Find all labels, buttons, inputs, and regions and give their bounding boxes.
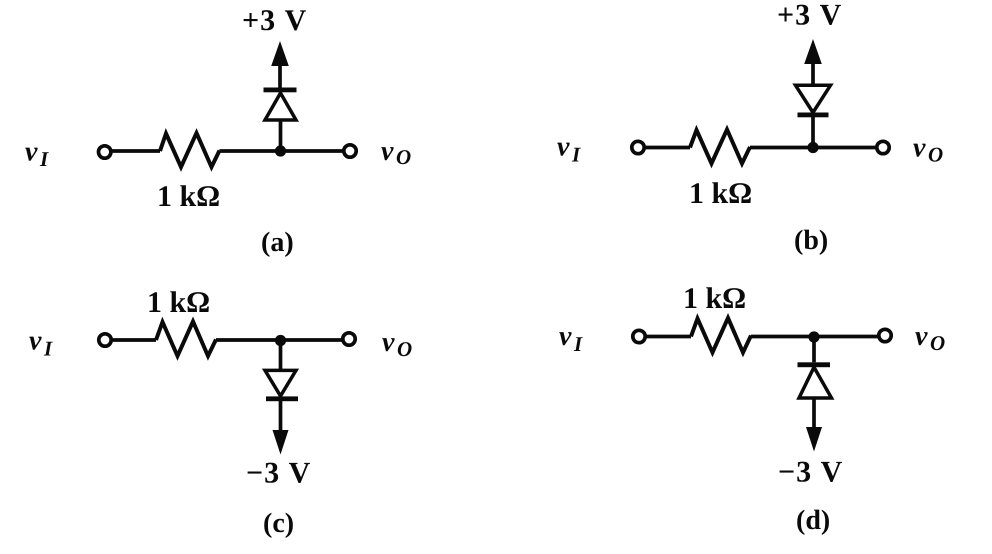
svg-text:O: O [930,331,945,355]
svg-text:O: O [397,337,412,361]
svg-text:+3 V: +3 V [242,4,307,37]
svg-text:v: v [557,132,570,163]
svg-text:−3 V: −3 V [246,457,311,490]
svg-text:v: v [29,326,42,357]
svg-text:−3 V: −3 V [778,456,843,489]
svg-text:v: v [913,133,926,164]
svg-text:1 kΩ: 1 kΩ [689,177,752,210]
svg-text:v: v [915,321,928,352]
svg-text:O: O [396,145,411,169]
svg-text:v: v [559,321,572,352]
svg-text:1 kΩ: 1 kΩ [683,282,746,315]
svg-text:I: I [43,337,53,361]
svg-text:I: I [571,143,581,167]
svg-text:(a): (a) [261,227,294,258]
svg-text:(d): (d) [796,505,830,536]
svg-text:v: v [381,136,394,167]
svg-text:I: I [39,147,49,171]
svg-text:(b): (b) [794,225,828,256]
svg-text:1 kΩ: 1 kΩ [147,286,210,319]
svg-text:I: I [573,332,583,356]
svg-text:1 kΩ: 1 kΩ [157,180,220,213]
svg-text:v: v [382,327,395,358]
svg-text:v: v [25,137,38,168]
svg-text:(c): (c) [263,508,294,539]
svg-text:O: O [928,143,943,167]
svg-text:+3 V: +3 V [777,0,842,32]
